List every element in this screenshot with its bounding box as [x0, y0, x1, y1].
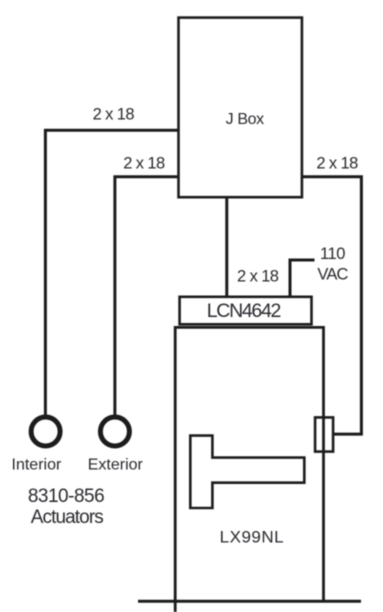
- svg-text:2 x 18: 2 x 18: [237, 268, 279, 286]
- exterior actuator circle: [100, 417, 129, 446]
- svg-text:LX99NL: LX99NL: [220, 528, 284, 547]
- svg-text:VAC: VAC: [317, 265, 348, 283]
- svg-text:2 x 18: 2 x 18: [316, 154, 358, 172]
- svg-text:J Box: J Box: [226, 111, 264, 128]
- svg-text:2 x 18: 2 x 18: [123, 154, 165, 172]
- svg-text:Actuators: Actuators: [31, 507, 104, 528]
- exit device push bar (T handle): [190, 436, 304, 508]
- svg-text:Interior: Interior: [12, 457, 62, 474]
- wire exterior actuator to J Box: [115, 177, 179, 416]
- wire interior actuator to J Box: [45, 130, 178, 416]
- svg-text:2 x 18: 2 x 18: [93, 106, 135, 124]
- svg-text:110: 110: [320, 245, 345, 263]
- svg-text:8310-856: 8310-856: [28, 486, 104, 507]
- wire J Box to LCN4642: [225, 197, 228, 297]
- wire J Box to strike connector: [302, 177, 362, 434]
- floor line: [138, 600, 361, 603]
- junction box J Box: [179, 18, 302, 198]
- strike connector on door edge: [315, 417, 333, 451]
- interior actuator circle: [31, 417, 60, 446]
- wire 110 VAC to LCN4642: [290, 260, 315, 297]
- svg-text:LCN4642: LCN4642: [207, 300, 281, 322]
- svg-text:Exterior: Exterior: [88, 457, 144, 474]
- controller LCN4642: [180, 297, 312, 325]
- door LX99NL outline: [175, 327, 323, 612]
